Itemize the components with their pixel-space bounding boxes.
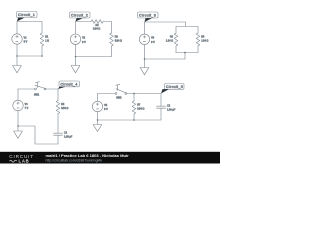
svg-text:SW1: SW1 [34,94,40,97]
svg-text:LAB: LAB [19,159,30,164]
svg-text:9 V: 9 V [82,41,86,44]
svg-text:R3: R3 [115,35,119,38]
svg-text:V3: V3 [151,37,155,40]
voltage source V3 [139,34,155,44]
voltage source V2 [70,34,86,44]
svg-text:R2: R2 [96,24,100,27]
node dot c5 mid [133,119,135,121]
wire R7 upper c5 [133,94,135,102]
ground c5 [93,120,102,132]
node dot c5 left [97,119,99,121]
node dot c2 [75,56,77,58]
wire right rail lower c3 [197,46,199,53]
node dot c3 left [144,58,146,60]
wire bottom c1 [17,55,42,57]
wire top-left c4 [18,88,35,90]
label Circuit_3 box [138,12,159,18]
wire top-right c5 [127,93,161,95]
label Circuit_4 box [59,81,80,87]
footer url text [46,158,103,162]
switch SW2 [115,84,127,99]
resistor R7 [132,101,144,114]
resistor R4 [166,33,178,46]
voltage source V4 [13,100,29,110]
svg-text:1 Ω: 1 Ω [45,40,49,43]
label Circuit_5 box [165,84,185,90]
svg-text:9 V: 9 V [104,108,108,111]
wire right lower c1 [41,46,43,56]
svg-text:1.68 µF: 1.68 µF [64,136,73,139]
capacitor C1 [54,131,73,138]
resistor R6 [56,101,68,114]
svg-text:V4: V4 [25,103,29,106]
wire left upper c2 [75,22,77,35]
wire right rail upper c3 [197,27,199,34]
wire top-left c2 [76,21,92,23]
wire bottom c2 [76,56,112,58]
svg-text:R4: R4 [170,35,174,38]
svg-text:1.84 µF: 1.84 µF [167,109,176,112]
svg-text:1.84 Ω: 1.84 Ω [201,40,208,43]
svg-text:R6: R6 [61,103,65,106]
wire top-right c2 [103,21,111,23]
node dot c5 top mid [133,93,135,95]
node dot c1 right [41,55,43,57]
wire right lower c2 [111,46,113,57]
svg-text:matri1 / Practice Lab 6 1803 -: matri1 / Practice Lab 6 1803 - Nicholas … [46,153,130,158]
svg-text:C2: C2 [167,104,171,107]
svg-text:SW2: SW2 [116,96,122,99]
wire left lower c5 [97,112,99,120]
voltage source V5 [92,101,108,111]
svg-text:V2: V2 [82,37,86,40]
label pointer [161,89,169,93]
svg-text:V1: V1 [24,36,28,39]
wire feed down c3 [185,22,187,27]
capacitor C2 [157,104,176,111]
CircuitLab logo [9,154,34,164]
footer title text [46,153,130,158]
resistor R5 [196,33,208,46]
wire left upper c4 [17,89,19,100]
voltage source V1 [12,34,28,44]
wire right upper c2 [111,22,113,34]
wire top-right c4 [46,88,58,90]
svg-text:C1: C1 [64,131,68,134]
ground c3 [140,59,149,75]
node dot c3 parallel [184,52,186,54]
svg-text:9 V: 9 V [151,41,155,44]
wire left lower c1 [16,44,18,56]
wire left upper c3 [144,22,146,34]
svg-text:http://circuitlab.com/c6987/un: http://circuitlab.com/c6987/unkmgl4k [46,158,103,162]
wire top c3 [145,21,186,23]
svg-text:9 V: 9 V [24,41,28,44]
wire left upper c1 [16,22,18,34]
footer bar [0,152,220,164]
svg-text:R7: R7 [137,103,141,106]
svg-text:Circuit_2: Circuit_2 [71,14,88,18]
label pointer [58,87,66,89]
label pointer [76,18,84,21]
label pointer [17,18,25,22]
wire top c1 [17,21,42,23]
ground c4 [14,126,23,138]
wire bottom c3 [145,58,186,60]
svg-text:Circuit_1: Circuit_1 [18,13,35,17]
svg-text:Circuit_4: Circuit_4 [61,82,78,86]
wire top-left c5 [98,93,116,95]
wire parallel bottom bar c3 [176,52,198,54]
node dot c4 [17,125,19,127]
wire left lower c2 [75,44,77,56]
node dot c1 left [16,55,18,57]
wire parallel top bar c3 [176,26,198,28]
svg-text:R1: R1 [45,35,49,38]
svg-text:Circuit_3: Circuit_3 [139,14,156,18]
wire left rail upper c3 [175,27,177,34]
resistor R1 [40,33,49,46]
svg-text:0.84 Ω: 0.84 Ω [137,108,144,111]
svg-text:R5: R5 [201,35,205,38]
wire left lower c4 [17,111,19,126]
wire feed down lower c3 [184,53,186,60]
wire left rail lower c3 [175,46,177,53]
wire bottom c4 [18,126,58,144]
wire mid c4 [57,114,59,134]
svg-text:0.84 Ω: 0.84 Ω [61,107,68,110]
resistor R2 [91,20,103,31]
svg-text:1.84 Ω: 1.84 Ω [166,40,173,43]
label pointer [145,18,153,22]
ground c2 [71,57,80,73]
switch SW1 [34,82,46,97]
wire left lower c3 [144,45,146,60]
wire cap lower c4 [57,135,59,144]
wire R7 lower c5 [133,114,135,120]
resistor R3 [110,33,122,46]
label Circuit_1 box [17,12,38,18]
wire bottom c5 [98,119,162,121]
wire C2 lower c5 [160,108,162,120]
wire right upper c1 [41,22,43,34]
svg-text:3.84 Ω: 3.84 Ω [115,40,122,43]
svg-text:7 V: 7 V [25,107,29,110]
svg-text:0.84 Ω: 0.84 Ω [93,28,100,31]
wire left upper c5 [97,94,99,102]
wire right upper c4 [57,89,59,101]
svg-text:Circuit_5: Circuit_5 [166,85,183,89]
ground c1 [13,56,22,73]
wire C2 upper c5 [160,94,162,107]
label Circuit_2 box [70,12,91,18]
svg-text:V5: V5 [104,104,108,107]
